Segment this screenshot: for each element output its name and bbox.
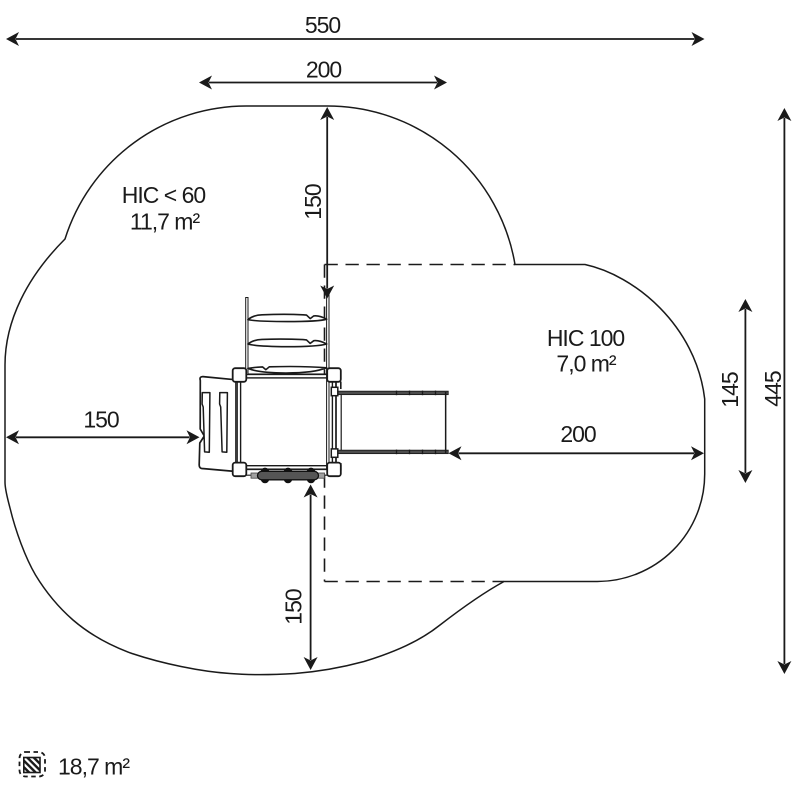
safety zone outline (cloud union) bbox=[5, 106, 705, 675]
slide connector bottom bbox=[340, 463, 342, 471]
climbing bar body bbox=[258, 471, 319, 480]
corner post bottom-right bbox=[327, 463, 341, 477]
platform outer frame bbox=[237, 374, 336, 469]
dashed HIC100 rectangle: bottom edge bbox=[325, 581, 505, 583]
platform base white fill bbox=[236, 374, 337, 471]
svg-text:HIC 100: HIC 100 bbox=[547, 325, 625, 351]
svg-text:150: 150 bbox=[300, 184, 326, 220]
legend hatched square bbox=[24, 758, 40, 773]
dimension 150 left bbox=[16, 436, 190, 438]
slide bottom rail bbox=[337, 450, 448, 453]
svg-text:445: 445 bbox=[760, 371, 786, 407]
net band 3 bbox=[248, 367, 327, 373]
corner post bottom-left bbox=[233, 463, 247, 477]
slide rail ticks bottom bbox=[397, 450, 436, 455]
dimension 150 bottom vertical bbox=[310, 495, 312, 661]
svg-text:200: 200 bbox=[560, 421, 596, 447]
dimension 200 right bbox=[459, 452, 695, 454]
svg-text:7,0 m²: 7,0 m² bbox=[556, 351, 617, 377]
dimension 550 bbox=[16, 38, 695, 40]
climbing bar circles bbox=[261, 468, 316, 484]
svg-text:150: 150 bbox=[83, 407, 119, 433]
net right rail bbox=[327, 294, 329, 470]
svg-text:18,7 m²: 18,7 m² bbox=[58, 754, 130, 780]
slide bracket top bbox=[331, 387, 338, 395]
panel slot 1 bbox=[202, 393, 210, 453]
climbing bar axis bbox=[246, 474, 328, 476]
legend dashed square bbox=[20, 752, 46, 777]
dimension 200 top bbox=[209, 82, 437, 84]
dashed HIC100 rectangle: top edge bbox=[325, 264, 516, 266]
slide rail ticks top bbox=[397, 391, 436, 396]
slide start edge bbox=[340, 394, 342, 450]
corner post top-right bbox=[327, 368, 341, 382]
svg-text:150: 150 bbox=[280, 589, 306, 625]
svg-text:550: 550 bbox=[305, 12, 341, 38]
svg-text:11,7 m²: 11,7 m² bbox=[130, 208, 201, 234]
slide connector top bbox=[340, 382, 342, 390]
dimension 145 right bbox=[744, 309, 746, 473]
slide bed white bbox=[337, 392, 447, 453]
platform inner frame bbox=[241, 378, 333, 466]
net band 1 bbox=[248, 314, 327, 321]
net band 2 bbox=[248, 339, 327, 347]
svg-text:HIC < 60: HIC < 60 bbox=[122, 182, 206, 208]
svg-text:200: 200 bbox=[306, 57, 342, 83]
dimension 150 top vertical bbox=[326, 117, 328, 289]
climbing panel (left of tower) bbox=[199, 377, 236, 472]
slide bracket bottom bbox=[331, 449, 338, 457]
climbing bar extensions bbox=[251, 473, 325, 478]
slide end edge bbox=[445, 392, 447, 453]
slide top rail bbox=[337, 391, 448, 394]
dashed HIC100 rectangle: left edge bbox=[324, 265, 326, 582]
dimension 445 far right bbox=[783, 118, 785, 664]
svg-text:145: 145 bbox=[717, 372, 743, 408]
panel slot 2 bbox=[220, 393, 228, 453]
corner post top-left bbox=[233, 368, 247, 382]
net left rail bbox=[246, 298, 248, 375]
